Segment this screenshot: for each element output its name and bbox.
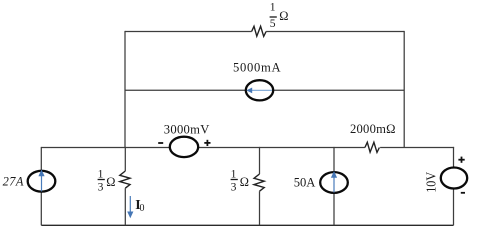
voltage source 10V [441, 168, 467, 189]
resistor 1/3 ohm (middle) zigzag [254, 174, 264, 191]
wire resistor branch 2 bottom [259, 191, 261, 225]
wire top-left segment [125, 31, 252, 33]
current source 5000mA [246, 80, 273, 100]
minus sign of 3000mV [158, 142, 163, 144]
svg-text:Ω: Ω [240, 175, 249, 189]
svg-text:1: 1 [270, 1, 276, 14]
current source 27A [28, 170, 56, 192]
wire resistor branch 1 bottom [124, 188, 126, 225]
svg-text:1: 1 [231, 167, 237, 180]
svg-text:3: 3 [98, 181, 104, 194]
svg-text:Ω: Ω [106, 175, 115, 189]
wire left vertical (27A branch) [40, 147, 42, 225]
svg-text:5000mA: 5000mA [233, 61, 281, 75]
plus sign of 10V [458, 157, 464, 163]
label 1/3 ohm (middle) [231, 167, 249, 193]
wire left vertical (top rectangles) [124, 31, 126, 148]
wire right vertical (top rectangles) [403, 31, 405, 148]
svg-text:50A: 50A [294, 176, 316, 190]
resistor 1/3 ohm (left) zigzag [120, 171, 130, 188]
svg-text:2000mΩ: 2000mΩ [350, 122, 396, 136]
wire resistor branch 1 top [124, 147, 126, 171]
label 1/3 ohm (left) [98, 167, 116, 193]
wire right vertical (10V branch) [453, 147, 455, 225]
svg-text:3000mV: 3000mV [164, 123, 210, 137]
svg-text:1: 1 [98, 167, 104, 180]
minus sign of 10V [461, 192, 465, 194]
label I0 [135, 198, 144, 214]
svg-text:0: 0 [140, 203, 145, 214]
resistor 1/5 ohm zigzag [252, 26, 267, 36]
wire bottom row [41, 224, 453, 226]
svg-text:3: 3 [231, 181, 237, 194]
wire second row [125, 89, 404, 91]
wire third row right segment [380, 147, 454, 149]
current source 50A [320, 171, 348, 193]
arrow I0 [127, 196, 133, 218]
svg-text:27A: 27A [3, 174, 24, 188]
wire third row left segment [41, 147, 365, 149]
plus sign of 3000mV [204, 140, 210, 146]
wire resistor branch 2 top [259, 147, 261, 174]
svg-text:Ω: Ω [279, 9, 288, 23]
wire top-right segment [266, 31, 404, 33]
svg-text:5: 5 [270, 17, 276, 30]
voltage source 3000mV [170, 137, 198, 157]
resistor 2000mohm zigzag [365, 142, 380, 152]
wire 50A branch [333, 147, 335, 225]
label 1/5 ohm [270, 1, 289, 30]
svg-text:10V: 10V [424, 172, 439, 193]
